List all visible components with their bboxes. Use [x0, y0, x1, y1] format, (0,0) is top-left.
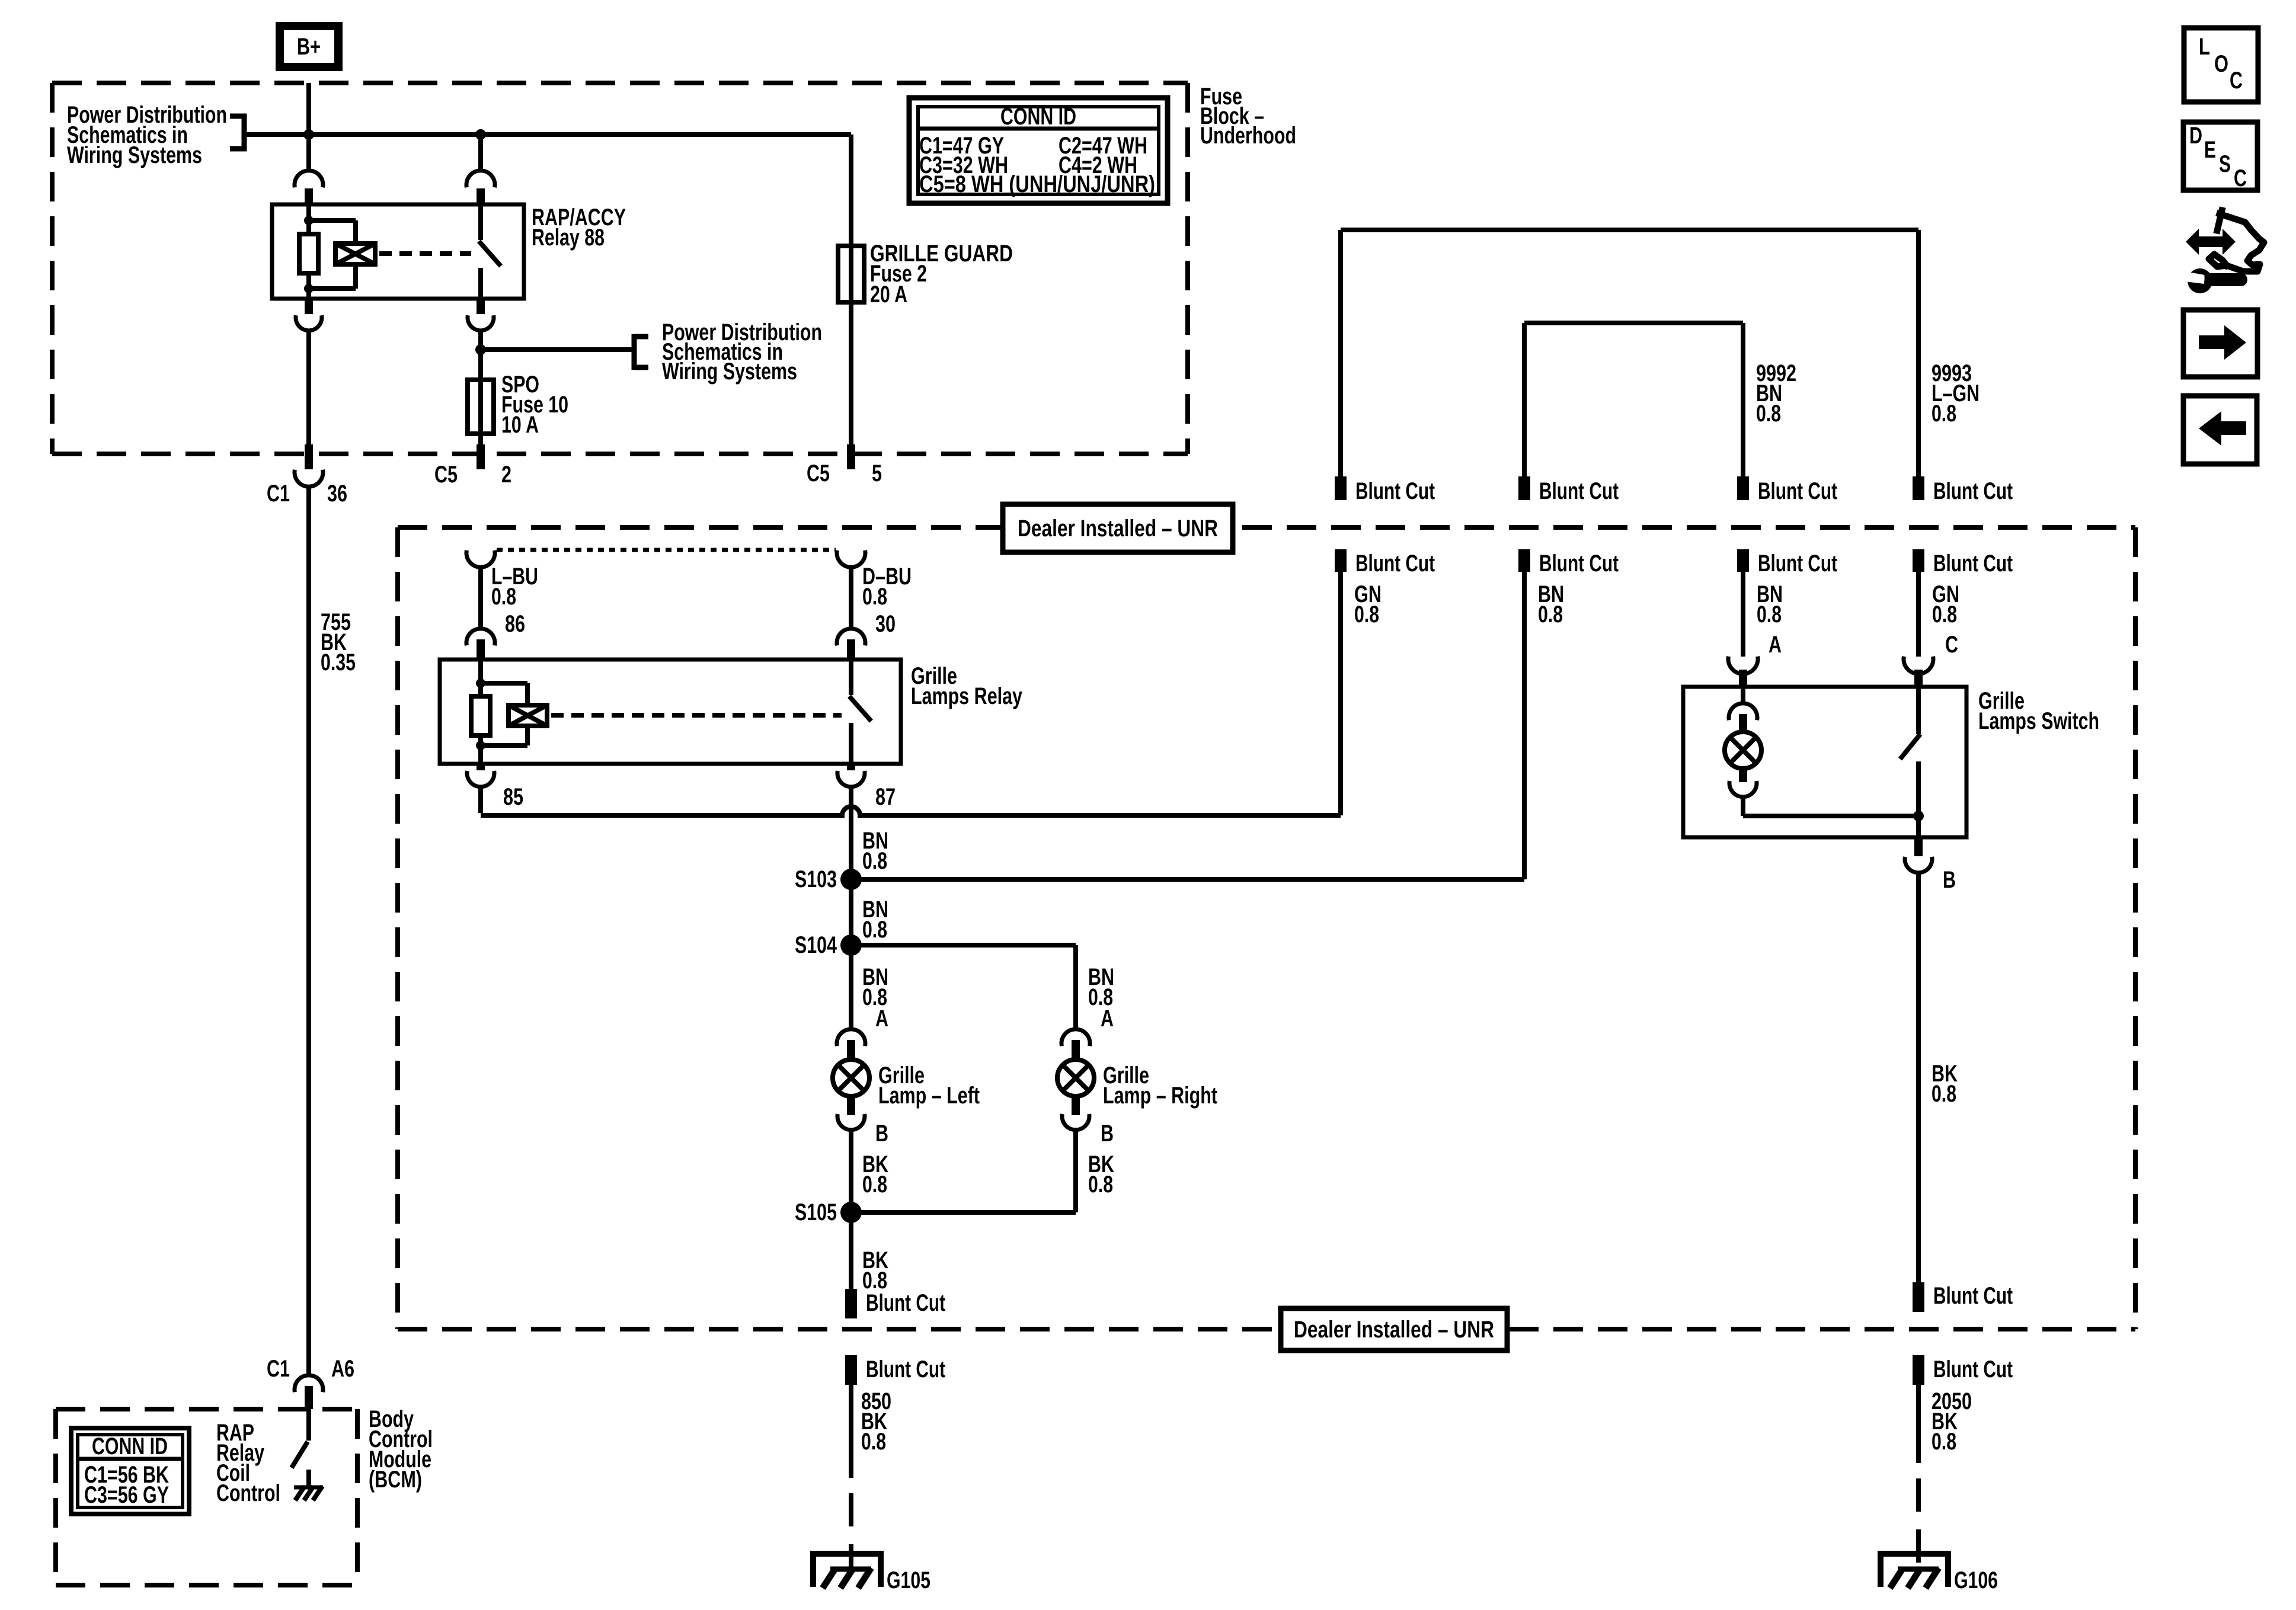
svg-text:20 A: 20 A — [870, 281, 907, 308]
switch grille lamps contact — [1900, 687, 1920, 837]
node junction RAP relay pin 30 feed — [475, 129, 486, 140]
label BK 0.8 (left lamp) — [862, 1151, 888, 1198]
blunt cut switch B wire — [1913, 1282, 2013, 1312]
wire 2050 BK to G106 — [1916, 1385, 1921, 1569]
label BK 0.8 (switch B) — [1932, 1061, 1958, 1107]
blunt cut harness D top — [1913, 476, 2013, 504]
svg-text:0.8: 0.8 — [1354, 601, 1379, 628]
ground G106 — [1881, 1554, 1998, 1593]
label Grille Lamps Relay — [911, 663, 1023, 709]
svg-text:Blunt Cut: Blunt Cut — [1758, 550, 1837, 577]
svg-text:0.8: 0.8 — [862, 584, 887, 610]
svg-text:C: C — [1945, 632, 1958, 658]
blunt cut harness A top — [1335, 476, 1435, 504]
connector RAP relay pin36 bottom — [296, 299, 322, 331]
svg-text:10 A: 10 A — [501, 412, 539, 438]
wire D-BU 0.8 — [849, 568, 853, 629]
label GRILLE GUARD Fuse 2 20 A — [870, 241, 1013, 308]
svg-text:C3=56 GY: C3=56 GY — [84, 1482, 169, 1508]
connector grille relay pin86 — [466, 629, 495, 660]
fuse block - underhood dashed box — [52, 83, 1188, 454]
icon prev-page arrow box — [2183, 396, 2257, 464]
ground BCM internal — [294, 1486, 323, 1500]
icon LOC box — [2184, 28, 2258, 102]
switch Grille Lamps Switch box — [1683, 687, 1966, 837]
connector relay86 harness — [466, 550, 495, 567]
label Power Distribution Schematics in Wiring Systems (left) — [67, 102, 227, 168]
label Fuse Block - Underhood — [1200, 84, 1296, 149]
label pin C switch — [1945, 632, 1958, 658]
svg-text:0.8: 0.8 — [1538, 601, 1563, 628]
svg-text:Control: Control — [216, 1480, 280, 1506]
switch BCM RAP relay coil control driver — [292, 1409, 309, 1487]
dashed actuation link grille relay — [551, 713, 842, 718]
dotted jumper 86-30 — [497, 548, 836, 552]
svg-text:B: B — [1943, 867, 1956, 893]
svg-text:Blunt Cut: Blunt Cut — [1933, 478, 2013, 504]
blunt cut 2050 BK wire — [1913, 1355, 2013, 1385]
svg-text:A: A — [1101, 1006, 1114, 1032]
svg-text:Blunt Cut: Blunt Cut — [1933, 1283, 2013, 1309]
wire 755 BK 0.35 to BCM — [306, 487, 311, 1376]
svg-text:86: 86 — [505, 611, 525, 637]
wire RAP relay coil loop — [309, 220, 356, 289]
lamp Grille Lamp - Right — [1057, 1060, 1094, 1096]
svg-text:0.8: 0.8 — [862, 848, 887, 874]
svg-text:G105: G105 — [887, 1567, 930, 1593]
svg-text:Blunt Cut: Blunt Cut — [1355, 550, 1435, 577]
label 2050 BK 0.8 — [1932, 1388, 1972, 1455]
relay RAP/ACCY Relay 88 box — [272, 204, 524, 299]
label D-BU 0.8 30 — [862, 564, 912, 637]
wire left lamp to S105 — [849, 1130, 853, 1212]
label C5 2 — [434, 462, 511, 488]
connector grille relay pin85 — [467, 764, 494, 787]
blunt cut harness C top — [1737, 476, 1837, 504]
svg-text:Dealer Installed – UNR: Dealer Installed – UNR — [1294, 1317, 1494, 1343]
table CONN ID BCM — [71, 1428, 189, 1514]
switch grille relay contact — [849, 660, 871, 764]
label BN 0.8 (left lamp) — [862, 964, 888, 1010]
svg-text:Wiring Systems: Wiring Systems — [662, 359, 797, 385]
svg-text:Relay 88: Relay 88 — [532, 225, 605, 251]
wire down to RAP relay pin 30 — [478, 135, 483, 172]
lamp Grille Lamp - Left — [833, 1060, 869, 1096]
svg-text:30: 30 — [875, 611, 896, 637]
svg-text:Underhood: Underhood — [1200, 123, 1296, 149]
label 9992 BN 0.8 — [1756, 360, 1796, 427]
svg-text:A: A — [1769, 632, 1782, 658]
connector RAP relay pin30 top — [295, 171, 323, 204]
wire S104 to left lamp — [849, 945, 853, 1029]
label box Dealer Installed - UNR (top) — [1003, 504, 1233, 552]
svg-text:B+: B+ — [297, 34, 321, 60]
wire RAP relay to SPO fuse — [478, 331, 483, 380]
power feed B+ terminal — [276, 22, 343, 71]
svg-text:C: C — [2230, 68, 2243, 94]
connector RAP relay pin86 top — [466, 171, 495, 204]
pin stub C1-36 — [305, 444, 313, 469]
ground G105 — [813, 1554, 930, 1593]
label box Dealer Installed - UNR (bottom) — [1281, 1308, 1507, 1350]
connector switch pin A — [1728, 657, 1758, 687]
svg-text:0.8: 0.8 — [1932, 601, 1957, 628]
lamp switch illumination — [1725, 732, 1761, 769]
wire switch B to blunt cut — [1916, 873, 1921, 1282]
svg-text:CONN ID: CONN ID — [92, 1433, 168, 1459]
RAP relay coil wire top — [306, 204, 311, 234]
label pin B right — [1101, 1121, 1114, 1147]
connector left lamp pin A — [837, 1029, 865, 1061]
svg-text:87: 87 — [875, 784, 896, 810]
wire SPO fuse to C5-2 — [478, 434, 483, 452]
wire grille guard fuse to C5-5 — [849, 302, 853, 452]
label GN 0.8 (D column) — [1932, 581, 1959, 628]
wire grille relay coil loop — [481, 683, 527, 745]
label BN 0.8 (B column) — [1538, 581, 1564, 628]
coil grille relay winding symbol — [509, 705, 547, 726]
label C1 36 — [267, 481, 347, 507]
pin stub C5-2 — [477, 444, 485, 469]
label GN 0.8 (A column) — [1354, 581, 1382, 628]
table CONN ID fuse block — [909, 98, 1168, 203]
label Grille Lamps Switch — [1978, 688, 2099, 734]
node power junction B+ — [303, 129, 314, 140]
svg-text:C5=8 WH (UNH/UNJ/UNR): C5=8 WH (UNH/UNJ/UNR) — [919, 171, 1155, 197]
relay Grille Lamps Relay box — [440, 660, 901, 764]
label pin B left — [875, 1121, 888, 1147]
connector switch lamp bottom — [1729, 768, 1757, 797]
connector BCM C1-A6 — [295, 1375, 323, 1409]
svg-text:0.8: 0.8 — [1932, 401, 1956, 427]
wire 9993 L-GN loop — [1341, 230, 1918, 478]
wire BN 0.8 to switch pin A — [1741, 572, 1745, 657]
svg-text:(BCM): (BCM) — [369, 1467, 422, 1493]
svg-text:Blunt Cut: Blunt Cut — [1933, 550, 2013, 577]
svg-text:Blunt Cut: Blunt Cut — [1539, 550, 1619, 577]
label BN 0.8 (C column) — [1757, 581, 1783, 628]
switch RAP relay contact — [479, 204, 501, 299]
svg-text:0.35: 0.35 — [321, 649, 356, 676]
connector grille relay pin30 — [837, 629, 865, 660]
svg-text:0.8: 0.8 — [1932, 1429, 1956, 1455]
callout bracket Power Distribution (left) — [230, 114, 247, 151]
label pin A switch — [1769, 632, 1782, 658]
svg-text:CONN ID: CONN ID — [1000, 104, 1076, 130]
svg-text:Lamps Switch: Lamps Switch — [1978, 708, 2099, 734]
svg-text:D: D — [2189, 123, 2202, 149]
connector grille relay pin87 — [837, 764, 865, 787]
switch lamp feed wire — [1741, 687, 1745, 705]
connector switch lamp top — [1729, 703, 1757, 732]
wire to power distribution callout (right) — [481, 347, 634, 352]
svg-text:Blunt Cut: Blunt Cut — [1758, 478, 1837, 504]
svg-text:0.8: 0.8 — [861, 1429, 886, 1455]
svg-text:S103: S103 — [795, 866, 837, 892]
svg-text:5: 5 — [872, 460, 882, 486]
svg-text:0.8: 0.8 — [1088, 1172, 1113, 1198]
svg-text:0.8: 0.8 — [1757, 601, 1782, 628]
blunt cut ground wire (dealer) — [845, 1289, 945, 1318]
svg-text:0.8: 0.8 — [491, 584, 516, 610]
label pin A right — [1101, 1006, 1114, 1032]
wire GN 0.8 to switch pin C — [1916, 572, 1921, 657]
svg-text:S105: S105 — [795, 1199, 837, 1225]
wire right lamp to S105 — [851, 1130, 1076, 1212]
icon DESC box — [2183, 122, 2257, 191]
label BK 0.8 (S105) — [862, 1247, 888, 1294]
blunt cut BN wire (to S103) — [1518, 549, 1619, 577]
connector right lamp pin B — [1062, 1095, 1089, 1130]
svg-text:Lamps Relay: Lamps Relay — [911, 683, 1023, 709]
label Grille Lamp - Right — [1103, 1062, 1217, 1109]
grille relay coil wire top — [478, 660, 483, 696]
connector C1 pin 36 — [295, 470, 323, 486]
grille relay coil wire bottom — [478, 735, 483, 764]
svg-text:Blunt Cut: Blunt Cut — [866, 1356, 945, 1382]
node junction SPO feed — [475, 344, 486, 355]
svg-text:Blunt Cut: Blunt Cut — [866, 1290, 945, 1316]
blunt cut GN wire (to relay 85) — [1335, 549, 1435, 577]
wire relay85 to GN blunt cut — [481, 572, 1341, 815]
splice S104 — [795, 932, 862, 958]
wire 9992 BN loop — [1524, 323, 1743, 478]
wire RAP relay to C1-36 — [306, 331, 311, 452]
label BN 0.8 (S103-S104) — [862, 897, 888, 943]
label 755 BK 0.35 — [321, 609, 356, 676]
svg-text:G106: G106 — [1954, 1567, 1998, 1593]
svg-text:B: B — [875, 1121, 888, 1147]
dashed actuation link RAP relay — [379, 251, 471, 256]
svg-text:Lamp – Right: Lamp – Right — [1103, 1083, 1217, 1109]
svg-text:Lamp – Left: Lamp – Left — [878, 1083, 980, 1109]
label pin A left — [875, 1006, 888, 1032]
svg-text:C5: C5 — [434, 462, 458, 488]
wire S105 to blunt cut — [849, 1212, 853, 1289]
fuse GRILLE GUARD Fuse 2 20A — [838, 246, 864, 302]
label BN 0.8 (87) — [862, 828, 888, 874]
label pin B switch — [1943, 867, 1956, 893]
svg-text:Blunt Cut: Blunt Cut — [1933, 1356, 2013, 1382]
RAP relay coil wire bottom — [306, 273, 311, 299]
svg-text:S104: S104 — [795, 932, 837, 958]
wire GN 0.8 to relay pin 85 — [1338, 572, 1343, 815]
label RAP/ACCY Relay 88 — [532, 204, 626, 251]
blunt cut GN wire (to switch C) — [1913, 549, 2013, 577]
connector relay30 harness — [837, 550, 865, 567]
svg-text:C: C — [2234, 165, 2247, 191]
svg-text:0.8: 0.8 — [862, 917, 887, 943]
dealer installed UNR dashed box — [398, 527, 2135, 1329]
svg-text:Wiring Systems: Wiring Systems — [67, 142, 202, 168]
svg-text:A6: A6 — [331, 1356, 354, 1382]
wire L-BU 0.8 — [478, 568, 483, 629]
blunt cut BN wire (to switch A) — [1737, 549, 1837, 577]
svg-text:85: 85 — [503, 784, 523, 810]
svg-text:O: O — [2214, 51, 2228, 77]
node grille relay coil top — [476, 678, 485, 688]
svg-text:0.8: 0.8 — [1756, 401, 1781, 427]
svg-text:C5: C5 — [807, 460, 830, 486]
svg-text:0.8: 0.8 — [1932, 1081, 1956, 1107]
wire power bus to grille guard fuse — [849, 135, 853, 246]
label Power Distribution Schematics in Wiring Systems (right) — [662, 319, 822, 385]
resistor RAP relay coil — [299, 234, 318, 273]
label Body Control Module (BCM) — [369, 1406, 433, 1493]
label BN 0.8 (right lamp) — [1088, 964, 1114, 1010]
connector RAP relay pin2 bottom — [468, 299, 494, 331]
node switch pin B junction — [1913, 811, 1924, 821]
wire S103 to S104 — [849, 879, 853, 945]
label SPO Fuse 10 10 A — [501, 372, 568, 438]
pin stub C5-5 — [847, 444, 855, 469]
svg-text:Dealer Installed – UNR: Dealer Installed – UNR — [1018, 516, 1218, 542]
label 850 BK 0.8 — [861, 1388, 891, 1455]
node grille relay coil bottom — [476, 741, 485, 750]
svg-text:Blunt Cut: Blunt Cut — [1355, 478, 1435, 504]
body control module dashed box — [56, 1409, 357, 1585]
label Grille Lamp - Left — [878, 1062, 980, 1109]
wire BN 0.8 to S103 — [1522, 572, 1527, 879]
label C5 5 — [807, 460, 882, 486]
connector right lamp pin A — [1061, 1029, 1090, 1061]
svg-text:A: A — [875, 1006, 888, 1032]
fuse SPO Fuse 10 10A — [468, 380, 494, 434]
splice S103 — [795, 866, 862, 892]
svg-text:Blunt Cut: Blunt Cut — [1539, 478, 1619, 504]
label BK 0.8 (right lamp) — [1088, 1151, 1114, 1198]
svg-text:S: S — [2219, 151, 2231, 177]
icon service wrench — [2185, 210, 2264, 293]
label pin 85 — [503, 784, 523, 810]
connector left lamp pin B — [837, 1095, 865, 1130]
icon next-page arrow box — [2183, 310, 2257, 377]
blunt cut harness B top — [1518, 476, 1619, 504]
label 9993 L-GN 0.8 — [1932, 360, 1980, 427]
connector switch pin B — [1905, 837, 1932, 873]
wire B+ to power node — [306, 83, 311, 172]
coil RAP relay winding symbol — [335, 244, 375, 264]
svg-text:B: B — [1101, 1121, 1114, 1147]
wire switch lamp to pin B node — [1743, 797, 1918, 816]
callout bracket Power Distribution (right) — [634, 334, 648, 370]
wire S103 to BN blunt cut — [851, 877, 1524, 882]
node RAP relay coil top — [304, 216, 314, 225]
blunt cut 850 BK wire — [845, 1355, 945, 1385]
wire power distribution bus — [244, 132, 851, 137]
wire relay87 to S103 — [849, 787, 853, 879]
svg-text:C1: C1 — [267, 481, 290, 507]
svg-text:36: 36 — [327, 481, 347, 507]
label pin 87 — [875, 784, 896, 810]
label RAP Relay Coil Control — [216, 1420, 280, 1506]
svg-text:2: 2 — [501, 462, 511, 488]
splice S105 — [795, 1199, 862, 1225]
svg-text:0.8: 0.8 — [862, 1172, 887, 1198]
label C1 A6 — [267, 1356, 354, 1382]
svg-text:C1: C1 — [267, 1356, 290, 1382]
node RAP relay coil bottom — [304, 284, 314, 293]
wire 850 BK to G105 — [849, 1385, 853, 1569]
wire S104 to right lamp — [851, 945, 1076, 1029]
resistor grille relay coil — [471, 696, 490, 735]
svg-text:L: L — [2199, 34, 2210, 60]
connector switch pin C — [1904, 657, 1933, 687]
svg-text:E: E — [2204, 137, 2216, 163]
label L-BU 0.8 86 — [491, 564, 538, 637]
